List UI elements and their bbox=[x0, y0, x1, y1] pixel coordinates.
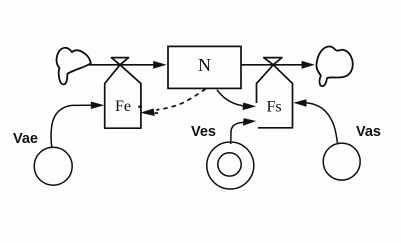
auxiliary variable circle Vae bbox=[34, 147, 72, 185]
label Vae bbox=[13, 131, 38, 147]
label Fs bbox=[266, 99, 281, 116]
auxiliary variable circle Vas bbox=[323, 143, 360, 180]
flow pipe: source cloud to stock N bbox=[89, 61, 167, 69]
label Vas bbox=[356, 124, 381, 140]
auxiliary variable double circle Ves bbox=[207, 142, 254, 189]
inflow valve (bowtie) bbox=[111, 58, 128, 65]
svg-text:Ves: Ves bbox=[191, 124, 216, 140]
connector arrow Vae to Fe bbox=[51, 102, 104, 148]
source cloud (left) bbox=[57, 48, 91, 85]
label N bbox=[198, 55, 211, 75]
dash tick on Fe container right edge bbox=[138, 106, 142, 108]
outflow rate container Fs bbox=[257, 65, 293, 128]
svg-text:Fs: Fs bbox=[266, 99, 281, 116]
svg-text:N: N bbox=[198, 55, 211, 75]
connector arrow stock N to Fs bbox=[217, 90, 256, 110]
label Ves bbox=[191, 124, 216, 140]
svg-text:Vas: Vas bbox=[356, 124, 381, 140]
stock N box bbox=[168, 46, 241, 88]
inflow rate container Fe bbox=[105, 65, 141, 128]
sink cloud (right) bbox=[316, 46, 352, 86]
dashed connector arrow stock N to Fe bbox=[140, 89, 205, 116]
svg-text:Fe: Fe bbox=[115, 98, 131, 115]
connector arrow Ves to Fs bbox=[231, 118, 257, 144]
label Fe bbox=[115, 98, 131, 115]
outflow valve (bowtie) bbox=[264, 58, 282, 65]
svg-text:Vae: Vae bbox=[13, 131, 38, 147]
connector arrow Vas to Fs bbox=[293, 99, 337, 143]
flow pipe: stock N to sink cloud bbox=[241, 61, 315, 69]
